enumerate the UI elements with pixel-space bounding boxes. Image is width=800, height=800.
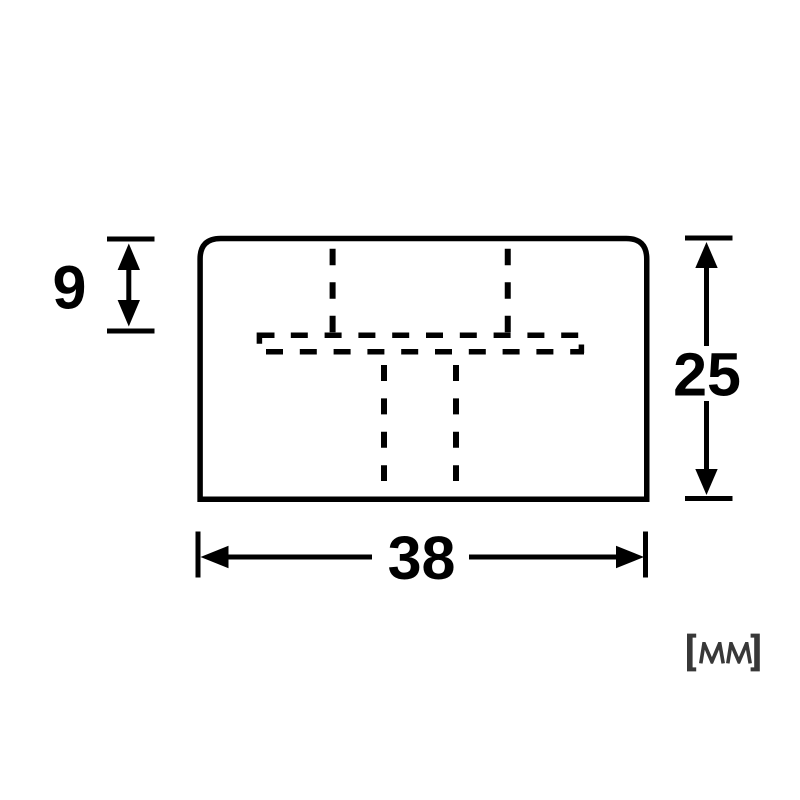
dimension 9: bottom extension tick [107,329,155,334]
dimension 25: lower arrow shaft [704,401,709,473]
dimension 9: arrow shaft [126,262,131,308]
dimension 9: up arrowhead [118,244,140,271]
body outline (bumper side view, rounded top corners) [200,239,647,500]
dimension 38: right arrowhead [616,546,644,568]
dimension 38: left extension tick [196,532,201,578]
dimension 9: down arrowhead [118,300,140,327]
dimension 25: bottom extension tick [685,496,733,501]
units label [мм]: letter м 1 [701,643,723,663]
dimension 25: down arrowhead [695,469,717,495]
hidden line: lower-right vertical dashed (screw hole right) [453,365,459,481]
svg-text:25: 25 [673,341,741,409]
units label [мм]: left bracket [687,634,696,672]
dimension 38: left arrowhead [201,546,229,568]
units label [мм]: letter м 2 [728,643,750,663]
hidden line: washer top-left corner dash [259,335,274,344]
svg-text:38: 38 [388,524,456,592]
dimension 38: right arrow shaft [469,555,618,560]
dimension 38: right extension tick [643,532,648,578]
units label [мм]: right bracket [751,634,760,672]
hidden line: washer bottom dashed horizontal [266,349,584,355]
dimension 38: left arrow shaft [226,555,372,560]
hidden line: washer top dashed horizontal [291,333,578,339]
dimension 25: top extension tick [685,236,733,241]
hidden line: lower-left vertical dashed (screw hole left) [381,365,387,481]
dimension 25: upper arrow shaft [704,264,709,346]
dimension 9: top extension tick [107,237,155,242]
dimension 25: up arrowhead [695,242,717,268]
hidden line: washer bottom-right corner dash [579,345,585,354]
hidden line: upper-right vertical dashed (recess wall right) [505,249,511,335]
hidden line: upper-left vertical dashed (recess wall left) [330,249,336,335]
svg-text:9: 9 [53,254,87,322]
